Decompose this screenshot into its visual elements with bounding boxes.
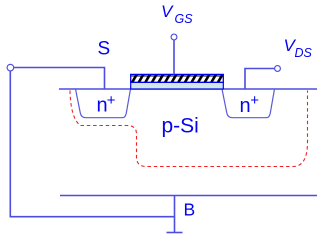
gate metal top black edge [131,75,222,77]
svg-text:+: + [107,92,116,109]
depletion boundary (red dashed) [70,91,308,167]
drain wire [245,69,274,89]
source wire [14,68,105,89]
svg-text:GS: GS [175,12,194,26]
drain terminal circle [275,66,281,72]
svg-text:DS: DS [295,46,313,60]
gate oxide [131,82,224,89]
gate wire [173,40,175,74]
svg-text:B: B [184,200,196,220]
gate terminal circle [171,34,177,40]
substrate bottom line [60,195,317,197]
svg-text:+: + [250,92,259,109]
svg-text:S: S [98,39,111,60]
svg-text:V: V [161,2,174,21]
substrate surface line [59,88,317,90]
n+ well left [76,89,131,118]
ground bar [167,232,183,234]
svg-text:n: n [240,95,251,117]
source terminal circle [7,64,14,71]
body contact vertical [174,196,176,233]
svg-text:p-Si: p-Si [162,114,199,137]
n+ well right [222,89,275,118]
gate metal (hatched) [131,74,224,82]
body wire (left side down and to B contact) [10,71,174,217]
